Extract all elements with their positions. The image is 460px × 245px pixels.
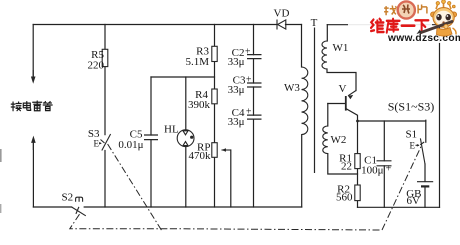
wire HL branch xyxy=(185,77,187,207)
svg-text:220: 220 xyxy=(88,60,105,72)
wire W3 top lead xyxy=(301,25,303,68)
char guan xyxy=(43,102,52,111)
wire W2 bottom lead xyxy=(328,154,358,174)
scan edge artifacts xyxy=(0,149,2,162)
linkage S2 dash-dot rail xyxy=(70,146,422,231)
svg-text:VD: VD xyxy=(274,8,290,20)
wire battery to bottom xyxy=(424,186,426,207)
svg-text:33μ: 33μ xyxy=(228,116,245,128)
svg-text:560: 560 xyxy=(336,192,353,204)
capacitor C1 xyxy=(377,161,392,166)
terminal arrow up xyxy=(31,136,36,150)
label S3 actuator E xyxy=(94,139,102,149)
wire C1 branch xyxy=(383,121,385,207)
logo char pian xyxy=(418,5,427,14)
logo badge circle xyxy=(398,1,415,18)
transformer core xyxy=(314,28,316,174)
lamp HL xyxy=(177,130,194,147)
junction collector node xyxy=(356,120,359,123)
wire S3 lower xyxy=(104,151,106,208)
resistor R2 xyxy=(355,185,360,201)
diode VD xyxy=(277,20,286,30)
wire capacitor chain branch xyxy=(253,25,255,208)
label S1 actuator E xyxy=(410,141,420,151)
wire base lead xyxy=(328,103,346,105)
resistor R1 xyxy=(355,154,360,169)
svg-text:0.01μ: 0.01μ xyxy=(118,139,143,151)
wire inter-stage horizontal xyxy=(151,76,215,78)
linkage S3 dash-dot xyxy=(108,144,162,231)
wire bottom bus right xyxy=(84,206,302,208)
svg-text:E: E xyxy=(410,141,416,151)
resistor R3 xyxy=(212,46,217,61)
svg-text:S(S1~S3): S(S1~S3) xyxy=(388,100,435,114)
switch S2 xyxy=(72,197,86,216)
wire S1 upper lead xyxy=(425,120,427,142)
char lei xyxy=(33,101,42,111)
logo mascot xyxy=(417,0,457,36)
svg-text:5.1M: 5.1M xyxy=(185,56,209,68)
svg-text:22: 22 xyxy=(341,161,352,173)
svg-text:100μ: 100μ xyxy=(361,165,384,177)
svg-text:W3: W3 xyxy=(284,82,300,94)
char dian xyxy=(23,102,30,111)
logo char zhao xyxy=(384,6,396,16)
wire RP wiper drop xyxy=(230,150,232,207)
svg-text:E: E xyxy=(94,139,100,149)
svg-text:W2: W2 xyxy=(331,134,347,146)
wire W2 top lead xyxy=(327,104,329,127)
label detonator chinese xyxy=(11,101,52,111)
wire left terminal rise xyxy=(32,143,34,207)
resistor R5 xyxy=(102,49,108,66)
svg-text:+: + xyxy=(246,75,252,86)
wire right edge xyxy=(439,25,441,208)
svg-text:33μ: 33μ xyxy=(228,84,245,96)
potentiometer RP xyxy=(212,143,231,158)
switch S1 xyxy=(420,138,425,164)
wire bottom right bus xyxy=(358,206,440,208)
switch S3 xyxy=(101,134,111,151)
logo red text wei ku yi xia xyxy=(371,19,428,33)
transistor V xyxy=(346,91,356,111)
terminal arrow down xyxy=(31,70,36,84)
transformer W3 winding xyxy=(302,67,308,135)
svg-text:+: + xyxy=(245,47,251,58)
svg-text:S2: S2 xyxy=(62,192,74,204)
capacitor C3 xyxy=(247,83,262,87)
svg-text:33μ: 33μ xyxy=(228,56,245,68)
wire R1 R2 branch xyxy=(357,121,359,207)
capacitor C5 xyxy=(144,135,158,140)
wire left terminal drop xyxy=(32,25,34,78)
wire S1 lower to battery xyxy=(424,164,426,182)
resistor R4 xyxy=(212,89,217,104)
battery GB xyxy=(417,182,433,187)
wire R3 R4 RP branch xyxy=(214,25,216,208)
svg-text:390k: 390k xyxy=(188,99,211,111)
transformer W1 winding xyxy=(322,41,327,69)
wire W1 to emitter xyxy=(327,69,356,91)
svg-text:W1: W1 xyxy=(333,42,349,54)
svg-text:HL: HL xyxy=(164,124,179,136)
svg-text:470k: 470k xyxy=(189,150,212,162)
wire bottom bus left xyxy=(33,206,71,208)
wire top bus xyxy=(33,24,277,26)
logo halo xyxy=(348,2,454,43)
wire collector node bus xyxy=(358,120,426,122)
svg-text:S1: S1 xyxy=(406,129,418,141)
transformer W2 winding xyxy=(323,126,328,154)
capacitor C4 xyxy=(247,115,262,119)
char jie xyxy=(11,102,21,111)
svg-text:+: + xyxy=(386,164,392,175)
wire R5 branch xyxy=(104,25,106,135)
wire C5 branch xyxy=(150,77,152,207)
svg-text:+: + xyxy=(246,107,252,118)
wire top right bus xyxy=(327,24,439,26)
wire W3 bottom lead xyxy=(301,135,303,207)
capacitor C2 xyxy=(247,55,262,59)
wire W1 top lead xyxy=(326,25,328,41)
wire top bus right of diode xyxy=(286,24,302,26)
wire collector lead xyxy=(346,109,358,121)
svg-text:V: V xyxy=(339,83,347,95)
svg-text:T: T xyxy=(311,17,318,29)
svg-text:6V: 6V xyxy=(407,195,421,207)
